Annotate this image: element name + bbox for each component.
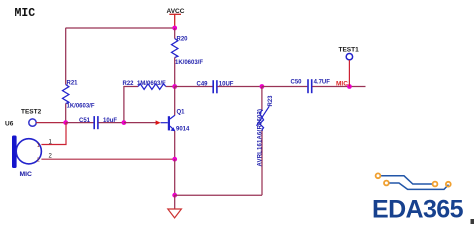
- wire TEST1 stem: [348, 60, 350, 87]
- resistor R22: [138, 84, 166, 90]
- node TEST1 junction: [347, 84, 352, 89]
- varistor R23: [257, 106, 270, 130]
- wire ground row: [175, 194, 262, 196]
- wire R22 right lead: [166, 86, 175, 88]
- pin 2 wire: [41, 158, 174, 160]
- wire TEST2 to junction: [36, 122, 66, 124]
- capacitor C50: [308, 79, 312, 93]
- svg-text:2: 2: [37, 158, 40, 164]
- wire R23 top lead: [261, 87, 263, 111]
- node R22 base junction: [122, 120, 127, 125]
- svg-text:MIC: MIC: [20, 171, 33, 178]
- svg-text:1: 1: [37, 143, 40, 149]
- resistor R20: [172, 39, 178, 58]
- logo pads: [376, 173, 451, 186]
- svg-text:4.7UF: 4.7UF: [314, 79, 331, 85]
- svg-text:MIC: MIC: [15, 7, 36, 20]
- svg-text:AVRL161A6(R0603): AVRL161A6(R0603): [258, 109, 264, 167]
- wire R22 left lead: [124, 87, 138, 123]
- wire base row junction to C51: [66, 122, 94, 124]
- power AVCC symbol: [169, 14, 181, 28]
- wire collector drop: [174, 87, 176, 116]
- svg-text:R20: R20: [177, 37, 189, 43]
- svg-text:C50: C50: [291, 79, 303, 85]
- wire base row to Q1: [124, 122, 156, 124]
- node ground junction: [172, 193, 177, 198]
- svg-text:EDA365: EDA365: [372, 196, 464, 224]
- resistor R21: [63, 85, 69, 104]
- node collector junction: [172, 84, 177, 89]
- microphone U6: [12, 136, 41, 169]
- capacitor C51: [94, 116, 98, 129]
- wire emitter drop: [174, 131, 176, 159]
- testpoint TEST1: [346, 54, 352, 60]
- svg-text:Q1: Q1: [177, 110, 186, 116]
- testpoint TEST2: [29, 119, 36, 126]
- wire R21 bottom lead: [65, 104, 67, 123]
- svg-text:TEST2: TEST2: [21, 109, 42, 116]
- node junction AVCC: [172, 26, 177, 31]
- svg-text:C49: C49: [197, 82, 209, 88]
- wire R20 bottom lead: [174, 58, 176, 87]
- svg-text:TEST1: TEST1: [339, 47, 360, 54]
- node emitter junction: [172, 157, 177, 162]
- svg-text:9014: 9014: [176, 126, 190, 132]
- ground: [168, 209, 182, 218]
- capacitor C49: [213, 80, 217, 93]
- pin 1 wire: [41, 123, 66, 145]
- wire mid rail R23 to C50: [262, 86, 307, 88]
- svg-text:1K/0603/F: 1K/0603/F: [175, 60, 203, 66]
- wire base arrow: [156, 120, 161, 125]
- wire top rail: [66, 27, 175, 29]
- svg-text:R23: R23: [268, 95, 274, 107]
- node base-left junction: [63, 120, 68, 125]
- wire emitter to ground row: [174, 159, 176, 195]
- svg-text:U6: U6: [5, 121, 14, 128]
- wire base row C51 to R22 drop: [99, 122, 124, 124]
- wire R23 column: [261, 130, 263, 195]
- wire mid rail C50 to end: [312, 86, 365, 88]
- page corner mark: [471, 219, 474, 224]
- wire ground stem: [174, 195, 176, 209]
- svg-text:1K/0603/F: 1K/0603/F: [67, 103, 95, 109]
- wire left drop to R21: [65, 28, 67, 85]
- wire mid rail to C49: [175, 86, 213, 88]
- transistor Q1: [161, 115, 176, 131]
- logo traces: [380, 176, 449, 190]
- node R23 junction: [260, 84, 265, 89]
- wire mid rail C49 to R23: [218, 86, 262, 88]
- wire R20 top lead: [174, 28, 176, 39]
